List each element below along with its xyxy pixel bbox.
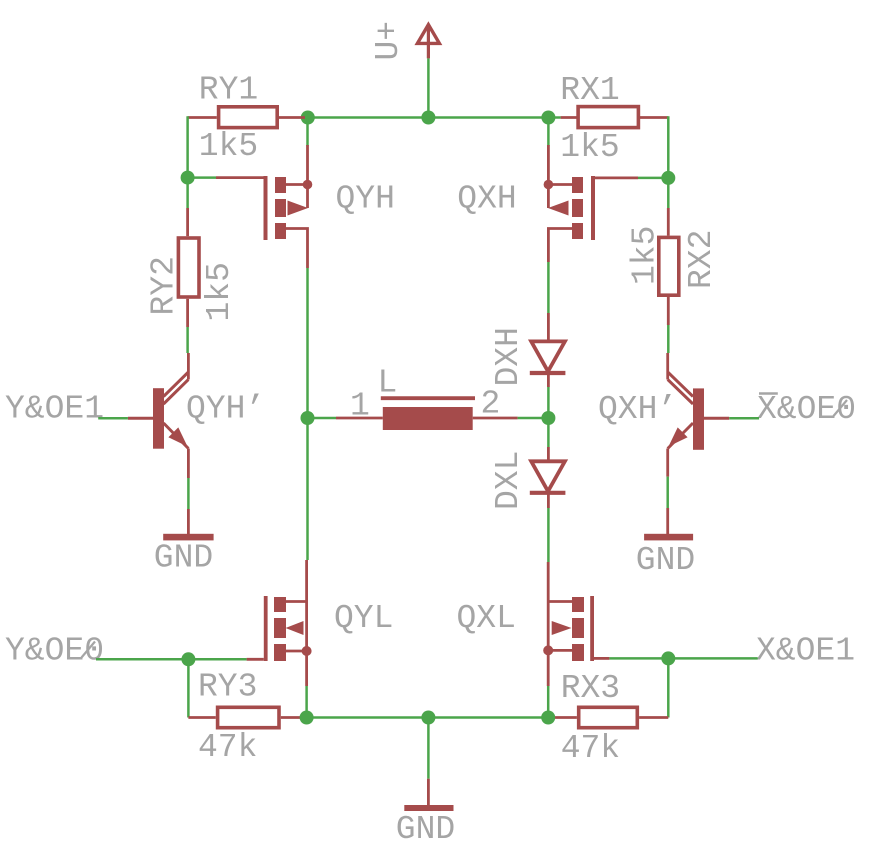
wire Y&OE0 to gate: [96, 658, 247, 661]
junction right gate node: [661, 171, 675, 185]
wire base Y&OE1: [98, 417, 128, 420]
svg-text:DXL: DXL: [490, 451, 527, 510]
svg-text:QYH’: QYH’: [186, 391, 265, 428]
svg-text:1: 1: [350, 388, 370, 425]
ground bottom: [404, 805, 453, 811]
wire QXL source down: [547, 686, 550, 718]
wire Y&OE0 node down: [187, 659, 190, 717]
svg-text:1k5: 1k5: [627, 226, 664, 285]
svg-text:RX2: RX2: [683, 230, 720, 289]
wire QYH drain vertical: [306, 268, 309, 560]
wire RY2 to QYH collector: [186, 327, 189, 353]
junction bottom left: [300, 711, 314, 725]
wire RX1 to top rail: [548, 116, 560, 119]
wire QYH source to rail: [306, 118, 309, 147]
svg-text:QXH’: QXH’: [598, 391, 677, 428]
junction top left: [301, 111, 315, 125]
wire right rail vertical: [667, 116, 670, 208]
svg-text:RX1: RX1: [560, 72, 619, 109]
wire left rail vertical: [186, 116, 189, 208]
wire inductor right: [518, 417, 549, 420]
wire RX2 to QXH collector: [667, 325, 670, 353]
svg-text:GND: GND: [636, 542, 695, 579]
junction bottom center: [421, 711, 435, 725]
svg-text:X&OE1: X&OE1: [756, 633, 855, 670]
svg-text:GND: GND: [396, 811, 455, 847]
junction inductor right: [541, 411, 555, 425]
wire gate QXH: [638, 177, 668, 180]
svg-text:GND: GND: [154, 539, 213, 576]
transistor QYL (n-channel mosfet): [247, 560, 312, 686]
svg-text:QXH: QXH: [457, 181, 516, 218]
resistor RX1: [561, 107, 669, 128]
diode DXL: [530, 447, 566, 508]
supply symbol U+: [417, 25, 439, 59]
resistor RX2: [659, 208, 679, 325]
svg-text:X&OE0: X&OE0: [757, 391, 856, 428]
wire top rail: [308, 116, 549, 119]
wire gate QYH: [188, 176, 216, 179]
svg-text:RY2: RY2: [146, 256, 183, 315]
net label X(bar)&OE0: [757, 391, 856, 428]
transistor QXH' (npn, mirrored): [668, 353, 730, 477]
junction inductor left: [301, 411, 315, 425]
transistor QXH (p-channel mosfet, mirrored): [544, 145, 638, 262]
wire gate QXL to X&OE1: [609, 657, 757, 660]
junction top right: [541, 111, 555, 125]
wire DXH to node: [547, 387, 550, 447]
wire base X&OE0: [729, 417, 759, 420]
wire DXL to QXL: [547, 508, 550, 562]
wire U+ to top rail: [427, 58, 430, 117]
svg-text:1k5: 1k5: [201, 262, 238, 321]
resistor RY3: [188, 707, 304, 727]
resistor RY2: [178, 208, 199, 327]
svg-text:Y&OE0: Y&OE0: [5, 633, 104, 670]
svg-text:RY1: RY1: [199, 72, 258, 109]
transistor QYH' (npn): [128, 353, 188, 478]
svg-text:47k: 47k: [561, 730, 620, 767]
svg-text:2: 2: [481, 386, 501, 423]
junction Y&OE0 node: [181, 652, 195, 666]
svg-text:L: L: [378, 365, 398, 402]
junction X&OE1 node: [661, 651, 675, 665]
wire bottom rail: [307, 716, 549, 719]
inductor L: [336, 398, 518, 430]
svg-text:RX3: RX3: [561, 670, 620, 707]
diode DXH: [530, 341, 566, 387]
wire QXH' emitter to gnd: [666, 477, 669, 534]
junction top center: [421, 111, 435, 125]
wire X&OE1 node down: [667, 658, 670, 717]
ground right: [644, 534, 693, 541]
svg-text:U+: U+: [370, 21, 407, 61]
svg-text:Y&OE1: Y&OE1: [5, 391, 104, 428]
ground left: [163, 534, 213, 541]
wire QXH drain to DXH: [547, 262, 550, 341]
svg-text:1k5: 1k5: [560, 129, 619, 166]
wire QYL source down: [305, 686, 308, 718]
svg-text:QYH: QYH: [336, 181, 395, 218]
svg-text:QXL: QXL: [457, 600, 516, 637]
resistor RY1: [188, 107, 305, 128]
svg-text:47k: 47k: [198, 729, 257, 766]
wire QYH' emitter to gnd: [187, 478, 190, 534]
wire bottom center to gnd: [427, 718, 430, 806]
svg-text:DXH: DXH: [490, 327, 527, 386]
wire QXH source to rail: [547, 118, 550, 147]
junction left gate node: [181, 171, 195, 185]
svg-text:RY3: RY3: [198, 669, 257, 706]
junction bottom right: [541, 711, 555, 725]
svg-text:1k5: 1k5: [199, 128, 258, 165]
svg-text:QYL: QYL: [334, 600, 393, 637]
transistor QYH (p-channel mosfet): [216, 145, 312, 268]
resistor RX3: [554, 707, 669, 727]
transistor QXL (n-channel mosfet, mirrored): [543, 562, 609, 686]
wire inductor left: [308, 417, 337, 420]
